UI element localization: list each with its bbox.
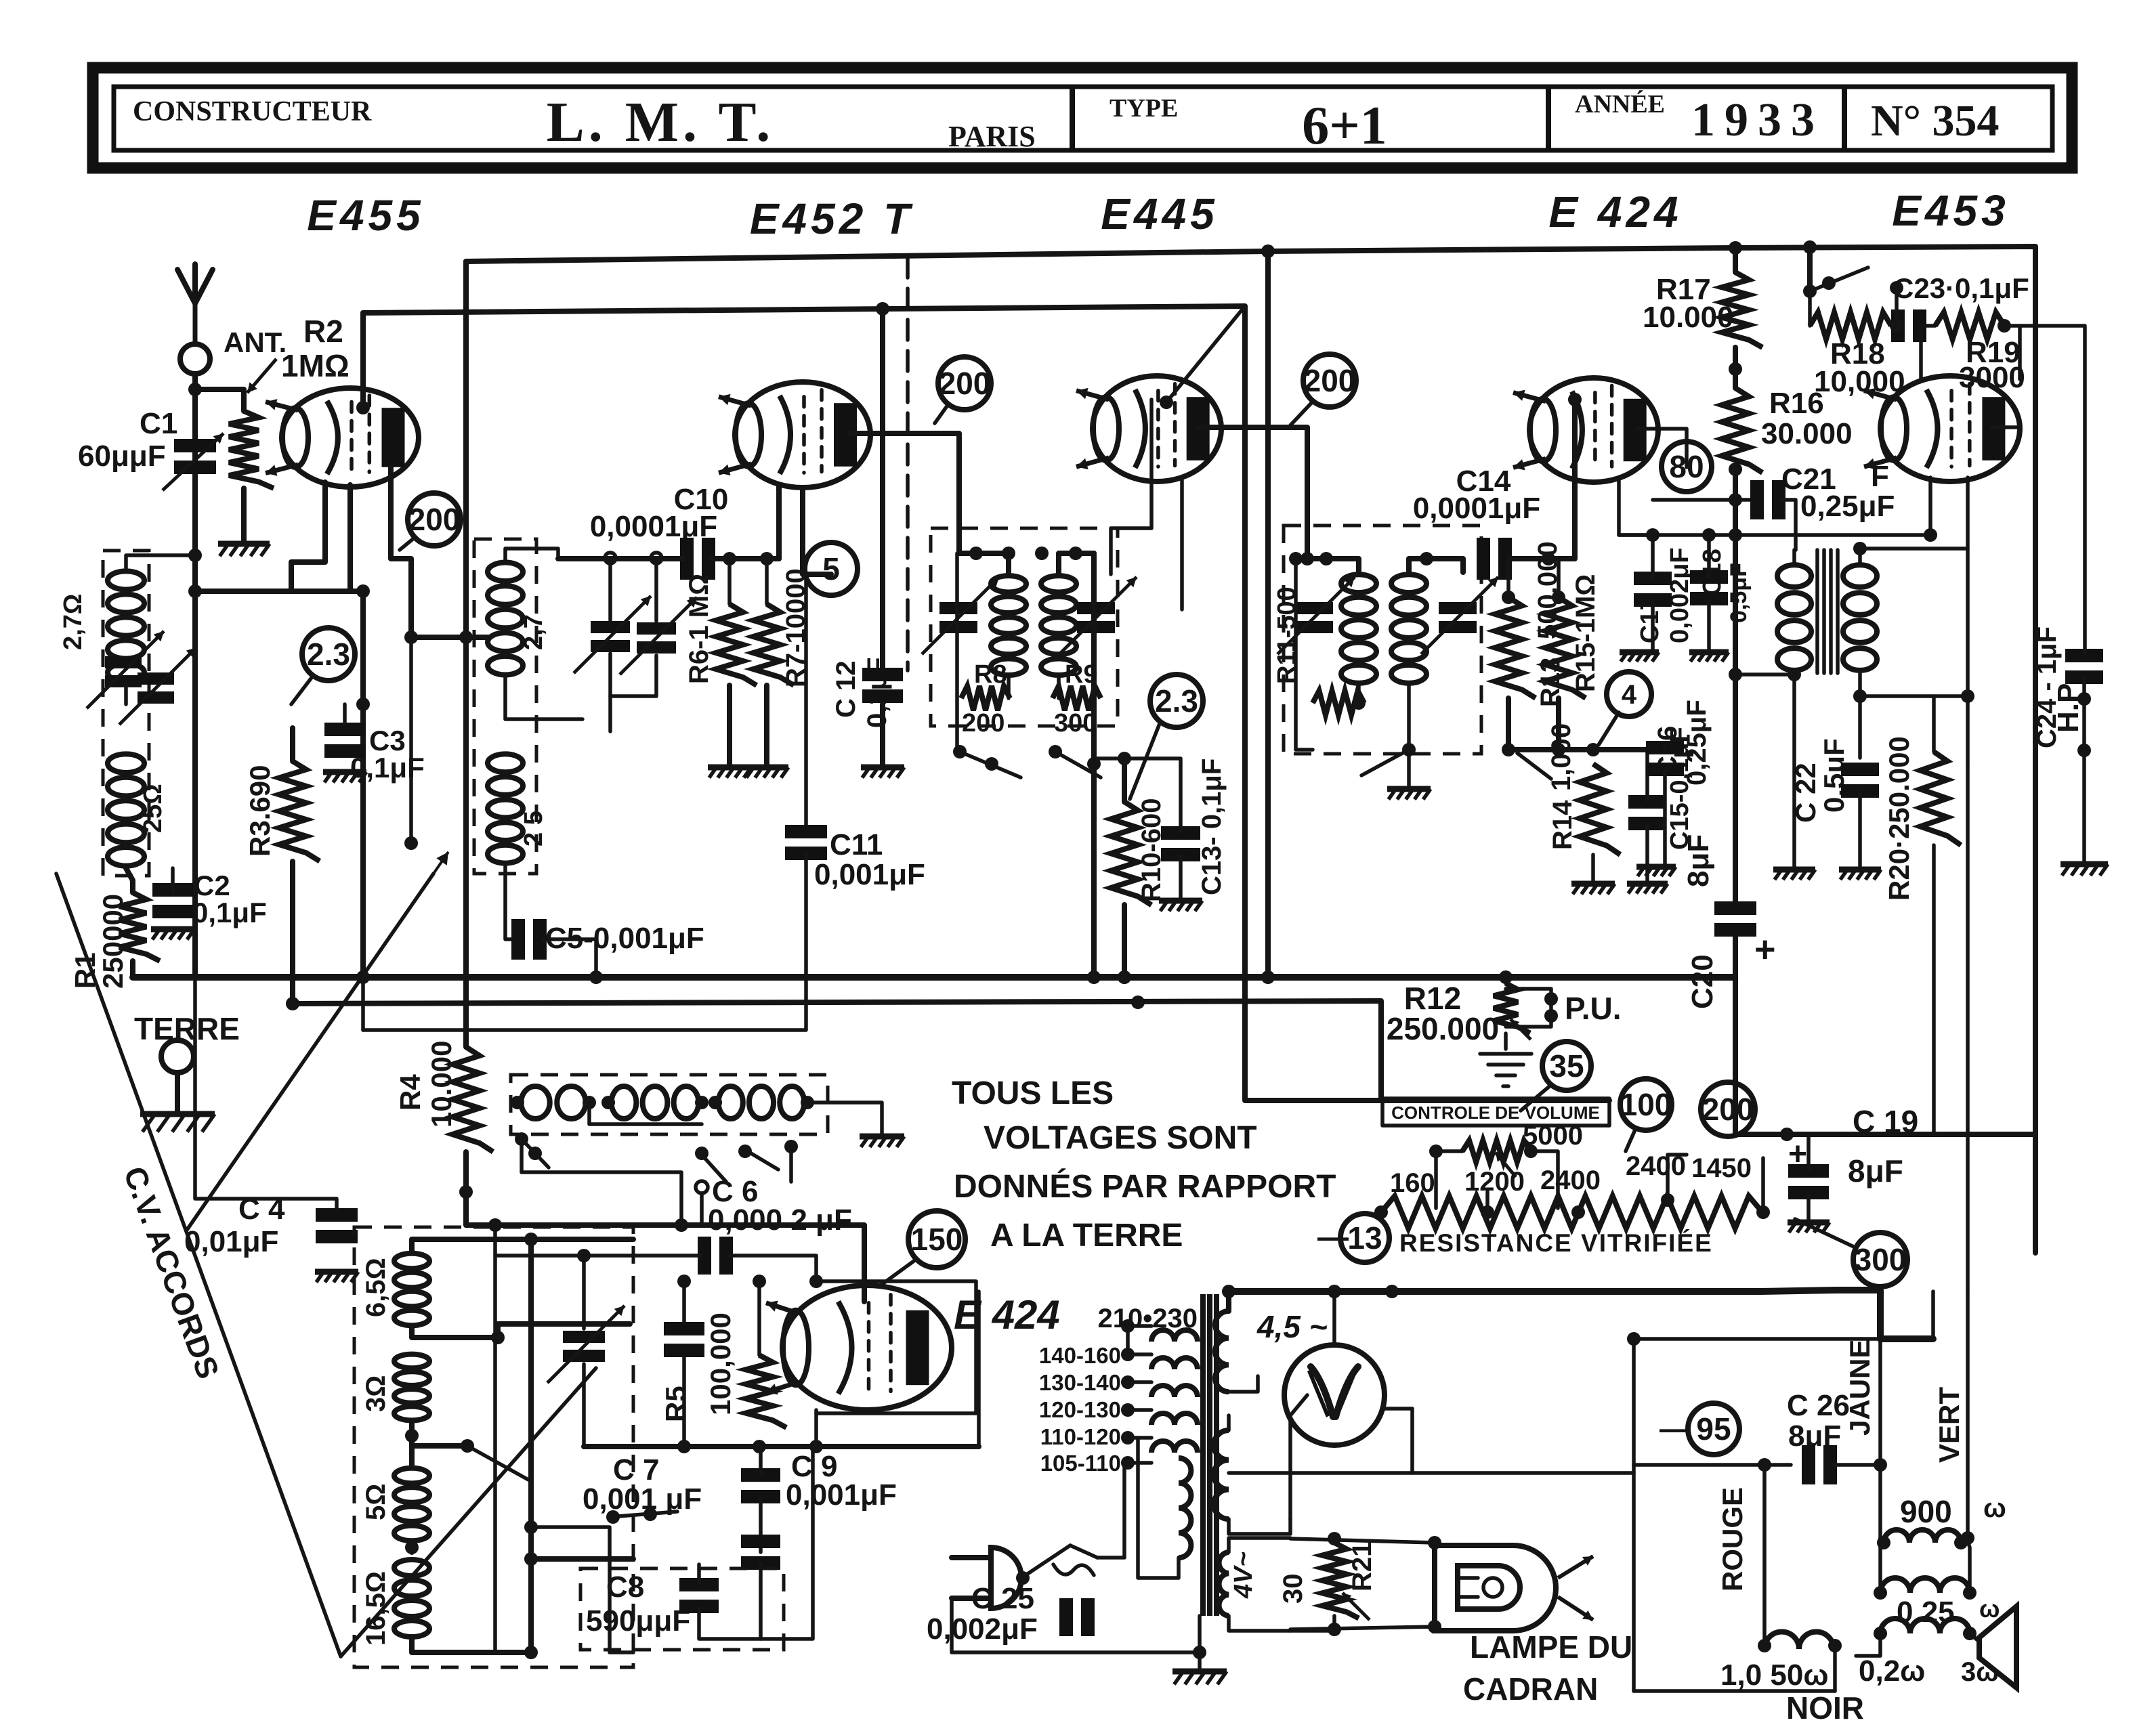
label R4 value 10.000 xyxy=(425,1041,457,1128)
circle 95 xyxy=(1688,1403,1739,1455)
pot wiper xyxy=(1496,1153,1516,1177)
label choke 1.0 50w xyxy=(1720,1659,1829,1692)
label R21 xyxy=(1347,1542,1377,1591)
antenna coil upper xyxy=(108,571,144,681)
wire R6 top xyxy=(727,559,732,604)
title label TYPE xyxy=(1109,94,1178,123)
antenna coil top lead xyxy=(126,549,202,569)
resistor R20 xyxy=(1920,752,1961,845)
label 110-120 xyxy=(1040,1424,1121,1449)
label TERRE xyxy=(134,1011,240,1046)
capacitor C18 xyxy=(1690,570,1728,605)
wire screen dashed feed xyxy=(906,257,910,670)
label R14 1.000 xyxy=(1546,723,1578,850)
wire E453 cathode leads xyxy=(1930,477,1968,765)
node C10 junctions xyxy=(723,552,774,565)
label 3w xyxy=(1961,1657,1999,1687)
wire IF1 left down xyxy=(955,553,959,752)
wire R17 bottom xyxy=(1729,347,1742,388)
primary tap coil 4 xyxy=(1151,1413,1198,1425)
label C7 xyxy=(613,1453,659,1486)
label minus 13 xyxy=(1317,1219,1349,1254)
label R7-10000 xyxy=(781,568,811,687)
label 5&#937; xyxy=(361,1484,391,1520)
capacitor C23 xyxy=(1891,309,1926,342)
wire C11 bottom xyxy=(363,855,806,1030)
circle 80 anode E424 xyxy=(1662,442,1712,492)
CV gang diagonal lower xyxy=(341,1368,596,1656)
IF2 trimmer 1 xyxy=(1277,577,1355,654)
label C23-0,1&#956;F xyxy=(1893,272,2029,304)
node E455 junction xyxy=(188,584,202,598)
wire R20 bottom xyxy=(1932,845,1936,1134)
svg-text:200: 200 xyxy=(408,502,461,537)
secondary 4V winding xyxy=(1219,1552,1229,1616)
svg-text:1,0 50ω: 1,0 50ω xyxy=(1720,1659,1829,1692)
svg-text:0,001 μF: 0,001 μF xyxy=(583,1482,702,1516)
label 160 xyxy=(1390,1168,1435,1198)
lamp arrows xyxy=(1558,1556,1593,1620)
node feed dots xyxy=(524,1520,538,1566)
title divider 3 xyxy=(1842,87,1847,150)
title divider 1 xyxy=(1070,87,1075,150)
title year 1933 xyxy=(1691,94,1824,146)
capacitor C26 xyxy=(1802,1445,1837,1484)
title divider 2 xyxy=(1546,87,1551,150)
tube E455 xyxy=(266,388,419,487)
svg-text:5: 5 xyxy=(822,551,840,586)
svg-text:95: 95 xyxy=(1696,1411,1731,1447)
vertical feed x784 xyxy=(528,1239,534,1652)
tube E453 xyxy=(1864,376,2020,482)
IF1 switch 1 xyxy=(953,745,1021,777)
svg-text:DONNÉS PAR RAPPORT: DONNÉS PAR RAPPORT xyxy=(954,1168,1336,1205)
title manufacturer L. M. T. xyxy=(547,91,775,154)
svg-text:16,5Ω: 16,5Ω xyxy=(361,1571,391,1646)
title label CONSTRUCTEUR xyxy=(133,96,372,127)
circle 150 osc anode xyxy=(908,1211,965,1268)
wire vert drop xyxy=(1961,1291,1974,1545)
ground below R6 xyxy=(708,767,751,777)
svg-text:200: 200 xyxy=(939,366,991,401)
wire C13 top xyxy=(1124,758,1181,832)
svg-text:4: 4 xyxy=(1622,680,1637,710)
svg-text:200: 200 xyxy=(1702,1092,1754,1127)
resistor R9 xyxy=(1053,686,1101,710)
label tube E445 xyxy=(1101,190,1218,238)
resistor R17 xyxy=(1722,272,1762,347)
resistor R1 xyxy=(119,893,160,961)
wire bottom row xyxy=(1508,747,1653,752)
label C4 value 0,01&#956;F xyxy=(184,1225,278,1258)
antenna symbol xyxy=(177,264,213,374)
output transformer secondary xyxy=(1880,1619,1970,1633)
IF2 coil1 bottom xyxy=(1352,685,1366,710)
IF1 coil1 bottom xyxy=(1007,677,1011,698)
wire 4.5V bottom xyxy=(1229,1376,1258,1392)
svg-text:130-140: 130-140 xyxy=(1039,1370,1121,1395)
svg-text:13: 13 xyxy=(1347,1220,1382,1256)
osc switch 1 xyxy=(515,1132,549,1168)
osc coil dashed box xyxy=(511,1075,828,1134)
resistor R13 xyxy=(1495,597,1536,698)
svg-text:E445: E445 xyxy=(1101,190,1218,238)
wire IF1 sec down xyxy=(1091,553,1097,977)
label R4 xyxy=(394,1074,426,1111)
capacitor C1 xyxy=(163,433,224,490)
label R9 300 xyxy=(1054,660,1098,737)
svg-text:VERT: VERT xyxy=(1933,1387,1965,1463)
wire x731 down xyxy=(493,1225,497,1652)
ground below C16 xyxy=(1636,867,1676,876)
IF1 trimmer 2 xyxy=(1059,577,1137,654)
svg-text:300: 300 xyxy=(1054,709,1097,737)
capacitor C10 xyxy=(680,538,715,580)
svg-text:R6-1 MΩ: R6-1 MΩ xyxy=(684,574,714,684)
node ot dots xyxy=(1874,1586,1977,1640)
wire box out right xyxy=(531,1556,633,1562)
label 2400a xyxy=(1540,1165,1601,1195)
label 120-130 xyxy=(1039,1397,1121,1422)
wire antenna lead xyxy=(192,374,198,591)
wire R13 R15 bottoms xyxy=(1508,698,1559,750)
primary tap coil 1 xyxy=(1151,1330,1198,1342)
label R10-600 xyxy=(1137,798,1166,902)
node IF1 top dots xyxy=(969,547,1082,560)
RF coil dashed box xyxy=(474,539,536,874)
wire cathode row xyxy=(1619,528,1734,542)
ground below IF2 xyxy=(1387,789,1431,799)
bus rectifier output xyxy=(1229,1290,1933,1339)
osc coil 1 xyxy=(521,1086,585,1119)
tuning coil 5 ohm xyxy=(394,1468,429,1541)
circle 5 cathode E452T xyxy=(805,542,858,595)
wire sec out xyxy=(1860,689,1974,703)
label CV ACCORDS xyxy=(117,1162,226,1384)
svg-text:CONSTRUCTEUR: CONSTRUCTEUR xyxy=(133,96,372,127)
svg-text:0,25μF: 0,25μF xyxy=(1800,490,1895,523)
circle 200 anode E452T xyxy=(938,357,991,410)
resistor R6 xyxy=(716,604,757,685)
label R19 value 3000 xyxy=(1959,361,2025,394)
svg-text:NOIR: NOIR xyxy=(1786,1690,1864,1726)
capacitor C14 xyxy=(1477,538,1512,580)
svg-text:0,0001μF: 0,0001μF xyxy=(590,510,717,543)
svg-text:100: 100 xyxy=(1620,1087,1672,1122)
label C10 value xyxy=(590,510,717,543)
wire x2560 down xyxy=(1733,500,1738,1134)
tuning coil 16,5 ohm xyxy=(394,1560,429,1637)
wire E452T cathode lead xyxy=(803,488,831,574)
svg-text:0,001μF: 0,001μF xyxy=(814,858,925,891)
svg-text:1,000: 1,000 xyxy=(1546,723,1576,791)
title type value 6+1 xyxy=(1302,96,1387,156)
label VERT xyxy=(1933,1387,1965,1463)
label 4,5 ~ xyxy=(1256,1309,1328,1344)
wire 4V top xyxy=(1229,1538,1290,1552)
svg-text:—: — xyxy=(1660,1411,1691,1446)
resistor R21 xyxy=(1322,1543,1359,1619)
IF2 primary coil xyxy=(1341,574,1376,683)
IF1 switch 2 xyxy=(1049,745,1101,777)
RF trimmer 2 xyxy=(620,597,697,675)
svg-text:6,5Ω: 6,5Ω xyxy=(361,1258,391,1317)
label 30 xyxy=(1278,1574,1308,1604)
wire R10 top xyxy=(1118,752,1131,802)
wire C9 leads xyxy=(759,1447,763,1552)
label NOIR xyxy=(1786,1690,1864,1726)
resistor R2 xyxy=(229,411,274,488)
wire E452T screen drop xyxy=(880,309,885,670)
label H.P xyxy=(2052,683,2085,733)
RF trimmer 1 xyxy=(574,596,651,673)
label C1 xyxy=(140,407,177,440)
capacitor C22 xyxy=(1841,763,1879,798)
wire E455 grid2 down xyxy=(347,485,353,591)
svg-text:N° 354: N° 354 xyxy=(1871,96,2000,146)
wire C22 bottom xyxy=(1858,792,1862,866)
wire osc to transformer xyxy=(977,1291,981,1447)
label 900 xyxy=(1900,1494,1952,1529)
label 1200 xyxy=(1464,1167,1525,1197)
label C8 xyxy=(606,1570,644,1604)
label R17 value 10.000 xyxy=(1643,301,1734,334)
primary tap coil 2 xyxy=(1151,1358,1198,1369)
label C6 xyxy=(712,1175,758,1208)
osc trimmer C7a xyxy=(547,1306,625,1383)
svg-text:C 25: C 25 xyxy=(971,1582,1034,1615)
wire rectifier top xyxy=(1332,1291,1336,1345)
tuning coil 3 ohm xyxy=(394,1354,429,1421)
svg-text:C20: C20 xyxy=(1686,954,1719,1009)
dial lamp xyxy=(1435,1545,1556,1631)
IF1 top wires xyxy=(959,553,1094,574)
osc coil 3 xyxy=(719,1086,805,1119)
svg-text:2 5: 2 5 xyxy=(520,811,548,847)
label 25&#937; xyxy=(139,784,167,833)
svg-text:ROUGE: ROUGE xyxy=(1716,1487,1748,1591)
svg-text:200: 200 xyxy=(1304,363,1356,398)
svg-text:C 26: C 26 xyxy=(1787,1389,1850,1422)
svg-text:0,000 2 μF: 0,000 2 μF xyxy=(708,1203,852,1237)
wire IF2 left down xyxy=(1289,552,1313,750)
svg-text:8μF: 8μF xyxy=(1848,1153,1903,1189)
wire R2 to ground xyxy=(241,488,247,542)
driver transformer primary xyxy=(1777,565,1811,670)
label R17 xyxy=(1656,273,1711,306)
wire vitrifiee right end xyxy=(1761,1158,1765,1212)
svg-text:P.U.: P.U. xyxy=(1565,991,1622,1026)
svg-text:1MΩ: 1MΩ xyxy=(281,348,350,383)
wire C2 top xyxy=(171,868,175,893)
wire R7 top xyxy=(765,559,769,604)
mains plug xyxy=(952,1547,1021,1608)
wire R4 top xyxy=(463,313,469,1047)
wire ot right leads xyxy=(1968,1541,1970,1593)
svg-text:E455: E455 xyxy=(307,191,424,240)
svg-text:140-160: 140-160 xyxy=(1039,1343,1121,1368)
capacitor C3 xyxy=(324,723,365,758)
label C3 xyxy=(369,725,406,756)
capacitor C21 xyxy=(1750,480,1785,519)
wire coil bottom to R1 xyxy=(126,868,133,893)
CV gang diagonal right xyxy=(187,852,448,1230)
label C3 value 0,1&#956;F xyxy=(350,752,425,784)
wire left drop 2412 xyxy=(1632,1339,1636,1691)
capacitor C15 xyxy=(1628,795,1666,830)
label tube E424 xyxy=(1548,188,1682,236)
wire heater mid tap xyxy=(1290,1616,1334,1631)
label 2 5 xyxy=(520,811,548,847)
label R12 xyxy=(1404,981,1461,1016)
wire R3 bottom to bus2 xyxy=(290,861,295,1004)
tap dots xyxy=(1121,1348,1135,1470)
wire mains lower xyxy=(952,1598,1200,1652)
svg-text:1933: 1933 xyxy=(1691,94,1824,146)
label C12 0,1&#956;F xyxy=(831,657,892,728)
capacitor C25 xyxy=(1059,1598,1095,1636)
node osc feed dots xyxy=(488,1218,688,1232)
svg-text:150: 150 xyxy=(911,1222,963,1257)
ground below transformer xyxy=(1172,1671,1227,1684)
wire lower bus xyxy=(286,997,1609,1100)
label 0,2w xyxy=(1859,1654,1925,1688)
svg-text:R20·250.000: R20·250.000 xyxy=(1883,736,1915,901)
ground below C13 xyxy=(1159,901,1202,911)
wire C23 link xyxy=(1890,319,1935,333)
wire C8 leads xyxy=(699,1564,761,1639)
svg-text:E 424: E 424 xyxy=(954,1292,1060,1338)
wire far right drop xyxy=(2020,326,2085,654)
svg-text:R21: R21 xyxy=(1347,1542,1377,1591)
svg-text:R3.690: R3.690 xyxy=(244,765,276,857)
circle 2.3 E455 cathode xyxy=(302,628,355,681)
wire coil1 top xyxy=(412,1233,633,1251)
wire R1 to bus xyxy=(130,961,135,977)
osc coil 2 xyxy=(612,1086,699,1119)
svg-text:C24 - 1μF: C24 - 1μF xyxy=(2032,626,2062,748)
svg-text:C13- 0,1μF: C13- 0,1μF xyxy=(1197,758,1227,895)
ground below C22 xyxy=(1839,870,1881,880)
label R1 250000 xyxy=(69,894,129,989)
wire R17 top xyxy=(1733,248,1738,272)
ground below HP xyxy=(2060,864,2108,876)
wire C26 row xyxy=(1634,1458,1791,1472)
wire C9 bottom join xyxy=(761,1447,813,1639)
svg-text:R2: R2 xyxy=(303,314,343,349)
label R18 value 10,000 xyxy=(1814,365,1905,398)
resistor R19 xyxy=(1935,312,2004,339)
wire antenna line to C4 xyxy=(195,977,337,1209)
wire R16 bottom xyxy=(1729,463,1742,507)
wire lamp row top xyxy=(1290,1532,1441,1549)
label tube E452T xyxy=(750,194,914,243)
tuning coil dashed box xyxy=(354,1227,633,1667)
ground below C17 xyxy=(1620,652,1659,662)
output transformer primary xyxy=(1880,1578,1970,1593)
R21 wiper xyxy=(1343,1593,1370,1620)
label R16 xyxy=(1769,387,1824,420)
antenna coil dashed box xyxy=(103,551,149,876)
svg-text:160: 160 xyxy=(1390,1168,1435,1198)
wire osc coil link xyxy=(589,1103,702,1124)
wire screen bus xyxy=(363,306,1382,1100)
ground below C2 xyxy=(151,929,194,939)
label 0 25 xyxy=(1897,1596,1955,1629)
wire 4V bottom xyxy=(1229,1616,1290,1631)
svg-text:C 22: C 22 xyxy=(1790,763,1821,823)
transformer core xyxy=(1203,1294,1217,1616)
wire C13 bottom xyxy=(1179,856,1183,897)
wire C6 row xyxy=(495,1249,823,1288)
svg-text:ANNÉE: ANNÉE xyxy=(1575,90,1665,119)
label C22 0,5&#956;F xyxy=(1790,738,1850,823)
wire antenna to R2 xyxy=(195,389,244,411)
pointer 200 E445 xyxy=(1290,402,1313,425)
node x2560 junctions xyxy=(1729,528,1742,681)
E455 plate lead xyxy=(391,467,466,637)
svg-text:C23·0,1μF: C23·0,1μF xyxy=(1893,272,2029,304)
label LAMPE DU xyxy=(1470,1629,1632,1665)
node screen bus junction E452T xyxy=(876,302,889,316)
svg-text:C11: C11 xyxy=(830,828,883,861)
wire C10 line xyxy=(558,556,779,561)
pointer 150 xyxy=(881,1260,916,1285)
IF1 dashed box xyxy=(931,528,1118,726)
wire field ends xyxy=(1877,1536,1968,1549)
label R3.690 xyxy=(244,765,276,857)
label 16,5&#937; xyxy=(361,1571,391,1646)
switch tuning a xyxy=(461,1439,528,1480)
svg-text:25Ω: 25Ω xyxy=(139,784,167,833)
svg-text:PARIS: PARIS xyxy=(948,120,1036,153)
resistor R8 xyxy=(961,686,1010,710)
wire coil4 bottom out xyxy=(412,1639,538,1659)
svg-text:30.000: 30.000 xyxy=(1761,417,1853,450)
label C16 0,25&#956;F xyxy=(1653,700,1712,786)
label C2 xyxy=(194,870,230,901)
ground below C4 xyxy=(315,1272,358,1282)
wire osc cathode out xyxy=(814,1410,818,1447)
tube E445 xyxy=(1076,376,1221,482)
svg-text:110-120: 110-120 xyxy=(1040,1424,1121,1449)
wire grid row2 xyxy=(816,1281,976,1413)
node IF2 top dots xyxy=(1301,552,1433,565)
osc switch 2 xyxy=(695,1147,726,1182)
svg-text:30: 30 xyxy=(1278,1574,1308,1604)
tuning coil 6,5 ohm xyxy=(394,1254,429,1325)
capacitor C17 xyxy=(1634,572,1672,607)
wire C19 bottom xyxy=(1806,1194,1811,1219)
resistance vitrifiee xyxy=(1381,1196,1762,1228)
capacitor C7b xyxy=(664,1322,704,1357)
label 5000 xyxy=(1523,1121,1583,1151)
label R15-1M&#937; xyxy=(1571,574,1601,692)
wire C26 right xyxy=(1834,1458,1887,1472)
svg-text:C1: C1 xyxy=(140,407,177,440)
label R5 value 100.000 xyxy=(704,1312,736,1415)
circle 300 xyxy=(1853,1233,1907,1287)
wire R15 top xyxy=(1552,559,1565,604)
label C26 8&#956;F xyxy=(1788,1419,1841,1453)
svg-text:LAMPE DU: LAMPE DU xyxy=(1470,1629,1632,1665)
svg-text:R5: R5 xyxy=(660,1386,692,1422)
label C9 xyxy=(791,1450,837,1483)
svg-text:60μμF: 60μμF xyxy=(78,440,166,473)
node bus1-E453 junction xyxy=(1803,240,1817,254)
svg-text:3Ω: 3Ω xyxy=(361,1375,391,1412)
wire C23 top stub xyxy=(1890,281,1903,326)
